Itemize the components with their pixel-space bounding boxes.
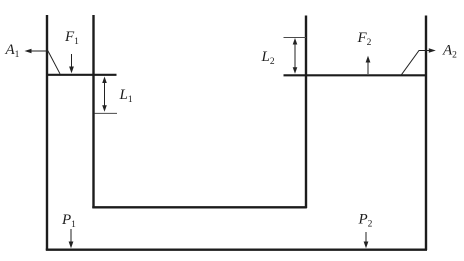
inner bottom wall: [92, 206, 306, 208]
outer right wall: [425, 16, 427, 251]
P1 pressure arrow: [69, 229, 74, 248]
L2 upper extension line: [284, 37, 307, 39]
inner right wall: [305, 16, 307, 209]
outer left wall: [46, 15, 48, 250]
inner left wall: [92, 15, 94, 208]
L2 dimension arrow: [293, 38, 298, 74]
F1 force arrow (down onto left piston): [69, 54, 74, 73]
A2 leader arrow: [401, 48, 436, 75]
L1 dimension arrow: [102, 77, 107, 112]
F2 force arrow (up from right piston): [366, 56, 371, 74]
right piston surface: [284, 74, 427, 76]
left piston surface: [47, 74, 117, 76]
L1 lower extension line: [95, 112, 118, 114]
outer bottom wall: [46, 248, 427, 250]
P2 pressure arrow: [364, 232, 369, 248]
A1 leader arrow: [25, 49, 61, 74]
